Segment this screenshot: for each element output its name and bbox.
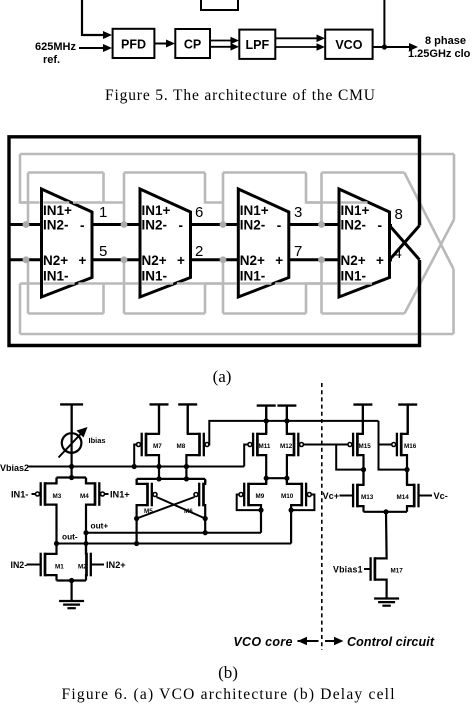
svg-text:Vbias1: Vbias1 <box>333 565 363 575</box>
wire gray vertical stage2 bottom dot <box>123 260 126 314</box>
delay cell U3 <box>238 189 288 297</box>
transistor M13 <box>356 484 359 508</box>
wire gray vertical stage2 right <box>204 173 207 204</box>
svg-text:1.25GHz clo: 1.25GHz clo <box>408 48 471 60</box>
power VDD rail over M16 <box>398 403 417 405</box>
wire M3 M4 common source bar <box>57 476 87 478</box>
transistor M1 <box>44 553 47 577</box>
svg-text:625MHz: 625MHz <box>35 41 76 53</box>
wire gray vertical stage3 bottom dot <box>222 260 225 314</box>
node cross couple top left junction <box>156 476 161 481</box>
wire crossover out4 to top feedback <box>390 226 420 260</box>
svg-text:IN1+: IN1+ <box>110 490 130 500</box>
wire node 8 cell4 output top stub <box>390 224 393 227</box>
svg-text:6: 6 <box>195 204 203 221</box>
svg-text:IN1+: IN1+ <box>142 203 171 218</box>
wire gray level B' stage2 bottom <box>124 312 205 315</box>
svg-text:IN1-: IN1- <box>341 269 367 284</box>
svg-text:N2+: N2+ <box>43 253 68 268</box>
svg-text:PFD: PFD <box>121 38 146 52</box>
power VDD rail over Ibias <box>60 403 83 405</box>
node gray junction dots on row wires <box>23 221 30 228</box>
wire M7 gate to Vbias2 rail <box>134 445 137 467</box>
arrow into LPF lower <box>231 43 240 51</box>
transistor M17 <box>374 557 377 581</box>
wire crossover out8 to bottom feedback <box>390 226 420 260</box>
svg-text:M17: M17 <box>391 568 404 575</box>
svg-text:N2+: N2+ <box>341 253 366 268</box>
svg-text:IN2-: IN2- <box>341 218 367 233</box>
wire cross couple gate M5 to M6 drain <box>157 497 206 519</box>
svg-text:-: - <box>277 218 282 233</box>
node out+ junction <box>83 530 88 535</box>
wire M5 drain down to out- <box>136 519 138 544</box>
wire CP to LPF upper <box>210 40 233 42</box>
wire control tail down to M17 <box>385 512 388 557</box>
svg-text:IN2-: IN2- <box>43 218 69 233</box>
svg-text:M1: M1 <box>55 564 64 571</box>
node M15 source junction <box>361 467 366 472</box>
wire VCO output <box>373 46 412 48</box>
power VDD rail over M7 <box>150 403 169 405</box>
wire dashed divider VCO core / control <box>321 383 323 650</box>
wire gray vertical stage1 right <box>102 173 105 204</box>
svg-text:2: 2 <box>195 243 203 260</box>
wire node 1 cell1 to cell2 top <box>92 223 140 226</box>
svg-text:IN1+: IN1+ <box>43 203 72 218</box>
wire gray level B stage4 <box>322 171 405 174</box>
wire gray vertical stage3 right <box>305 173 308 204</box>
wire M10 source down to out- <box>290 510 292 543</box>
wire gray vertical stage1 to input dot <box>27 173 30 225</box>
wire M8 gate riser to mirror line <box>208 421 379 445</box>
block LPF <box>239 30 275 59</box>
svg-text:(a): (a) <box>213 367 232 386</box>
svg-text:M15: M15 <box>359 443 372 450</box>
svg-text:Vc+: Vc+ <box>323 491 340 501</box>
node M5 drain junction <box>134 516 139 521</box>
transistor M7 <box>145 433 148 457</box>
power VDD rail over M12 <box>277 404 296 406</box>
wire gray level B stage2 <box>124 171 205 174</box>
svg-text:+: + <box>376 253 384 268</box>
node M7 drain junction <box>156 464 161 469</box>
svg-text:-: - <box>378 218 383 233</box>
block PFD <box>113 29 155 58</box>
svg-text:VCO: VCO <box>335 38 362 52</box>
wire M11 M12 source bar <box>266 477 287 479</box>
svg-text:Vbias2: Vbias2 <box>0 463 29 473</box>
svg-text:M3: M3 <box>53 493 62 500</box>
svg-text:IN1-: IN1- <box>142 269 168 284</box>
node control tail junction <box>383 509 388 514</box>
node Control circuit label with arrow <box>325 640 334 642</box>
svg-text:5: 5 <box>99 243 107 260</box>
svg-text:out-: out- <box>62 532 78 542</box>
svg-text:IN2-: IN2- <box>240 218 266 233</box>
wire M6 drain down to out+ <box>204 519 206 533</box>
arrow into PFD pin 1 <box>103 31 112 39</box>
arrow into LPF upper <box>231 37 240 45</box>
node M1 M2 tail junction <box>69 578 74 583</box>
wire M11 gate to Vbias2 rail <box>244 445 248 467</box>
wire gray level B' stage4 bottom <box>322 312 405 315</box>
wire gray vertical stage2 bottom right <box>204 284 207 314</box>
svg-text:LPF: LPF <box>245 38 269 52</box>
svg-text:(b): (b) <box>218 663 238 682</box>
svg-text:Vc-: Vc- <box>434 491 448 501</box>
transistor M11 <box>256 433 259 457</box>
arrow into CP <box>166 40 175 48</box>
wire LPF to VCO upper <box>275 37 319 39</box>
svg-text:VCO core: VCO core <box>233 635 292 649</box>
transistor M5 <box>146 483 149 507</box>
wire gray vertical into stage3 input dot <box>222 173 225 225</box>
wire gray feedback outer top level A <box>20 153 454 156</box>
wire M16 gate loop from mirror line <box>379 444 392 446</box>
wire gray vertical right inner down <box>452 269 455 334</box>
node M8 drain junction <box>184 464 189 469</box>
svg-text:IN1-: IN1- <box>240 269 266 284</box>
wire top row into cell1 <box>9 223 42 226</box>
svg-text:8 phase: 8 phase <box>425 35 466 47</box>
arrow into VCO upper <box>317 35 326 43</box>
wire M1 M2 common source bar <box>57 579 87 581</box>
block divider partial at top <box>201 0 238 10</box>
wire gray vertical stage3 bottom right <box>305 284 308 314</box>
wire M15 gate loop <box>336 445 363 470</box>
wire gray level B' stage3 bottom <box>223 312 306 315</box>
wire node 6 cell2 to cell3 top <box>191 223 239 226</box>
svg-text:7: 7 <box>294 243 302 260</box>
wire gray level B stage1 <box>28 171 104 174</box>
node M10 source junction <box>289 508 294 513</box>
wire M8 drain to cross couple top <box>185 467 187 479</box>
wire gray level C stage3-4 <box>306 201 322 204</box>
wire gray level C crossing cell4 <box>306 201 337 204</box>
node M12 drain mirror junction <box>284 418 289 423</box>
ground under M1 M2 <box>59 600 84 602</box>
wire top bar right down to M6 <box>204 479 206 484</box>
wire node 4 cell4 output bottom stub <box>390 258 393 261</box>
delay cell U1 <box>42 189 93 297</box>
ground under M17 <box>374 597 399 599</box>
svg-text:N2+: N2+ <box>240 253 265 268</box>
svg-text:Control circuit: Control circuit <box>347 635 435 649</box>
svg-text:M11: M11 <box>259 443 271 450</box>
node M16 source junction <box>404 467 409 472</box>
node M6 to out+ junction <box>203 530 208 535</box>
svg-text:8: 8 <box>395 206 403 223</box>
wire out+ line <box>86 532 261 534</box>
wire M12 gate to M15 gate <box>304 444 337 446</box>
transistor M14 <box>413 484 416 508</box>
block VCO <box>325 30 372 59</box>
arrow into VCO lower <box>317 43 326 51</box>
svg-text:Figure 5. The architecture of: Figure 5. The architecture of the CMU <box>105 87 375 104</box>
svg-text:Figure 6. (a) VCO architecture: Figure 6. (a) VCO architecture (b) Delay… <box>62 686 395 703</box>
wire PFD to CP <box>154 43 169 45</box>
svg-text:IN1+: IN1+ <box>240 203 269 218</box>
wire M4 drain down to M2 crossing out- <box>85 533 87 554</box>
node crossing blob M2 drain <box>84 541 89 546</box>
transistor M8 <box>198 433 201 457</box>
wire gray diagonal right crossover path A <box>405 220 455 314</box>
transistor M16 <box>400 433 403 457</box>
transistor M6 <box>202 483 205 507</box>
wire cross couple top bar <box>137 478 206 480</box>
wire node 5 cell1 to cell2 bottom <box>92 258 140 261</box>
svg-text:CP: CP <box>184 38 201 52</box>
svg-text:+: + <box>275 253 283 268</box>
wire cross couple gate M6 to M5 drain <box>137 497 195 519</box>
wire gray level C left vertical corner stub <box>20 201 28 204</box>
transistor M9 <box>247 483 250 507</box>
wire gray vertical into stage4 input dot <box>320 173 323 225</box>
wire gray vertical stage4 bottom dot <box>320 260 323 314</box>
delay cell U2 <box>140 189 191 297</box>
wire M9 source down to out+ <box>260 510 262 533</box>
svg-text:M7: M7 <box>153 443 162 450</box>
wire gray outer bottom level A' <box>20 333 454 336</box>
svg-text:M12: M12 <box>280 443 293 450</box>
wire top bar left down to M5 <box>136 479 138 484</box>
wire M15 node down to M13 <box>362 470 364 485</box>
svg-text:M2: M2 <box>78 564 87 571</box>
node M6 drain junction <box>203 516 208 521</box>
node VCO output junction <box>382 44 387 49</box>
wire gray vertical right outer down <box>453 154 456 220</box>
svg-text:M16: M16 <box>404 443 417 450</box>
svg-text:M8: M8 <box>177 443 186 450</box>
wire gray vertical into stage2 input dot <box>123 173 126 225</box>
wire feedback up to divider <box>383 0 385 47</box>
wire tail to ground <box>70 581 72 602</box>
node Vbias2 junction at tail <box>69 464 74 469</box>
wire 625MHz ref into PFD <box>79 47 107 49</box>
arrow output clock <box>409 43 418 51</box>
wire gray vertical left outer <box>19 154 22 204</box>
wire gray level C' crossing all cells <box>38 282 41 285</box>
svg-text:N2+: N2+ <box>142 253 167 268</box>
svg-text:+: + <box>79 253 87 268</box>
wire gray vertical stage1 bottom right <box>102 284 105 314</box>
node M7 gate tap <box>132 464 137 469</box>
wire black feedback loop border <box>9 137 420 346</box>
svg-text:M14: M14 <box>397 494 410 501</box>
wire bottom row into cell1 <box>9 258 42 261</box>
node M11 drain mirror junction <box>264 418 269 423</box>
transistor M2 <box>85 553 88 577</box>
wire node 3 cell3 to cell4 top <box>289 223 339 226</box>
node M5 to out- junction <box>134 541 139 546</box>
transistor M10 <box>300 483 303 507</box>
wire M4 source up <box>85 478 87 484</box>
wire gray level B stage3 <box>223 171 306 174</box>
transistor M15 <box>356 433 359 457</box>
wire M10 gate loop to source <box>291 495 314 511</box>
svg-text:Ibias: Ibias <box>89 436 106 445</box>
svg-text:M9: M9 <box>256 493 265 500</box>
wire gray vertical stage1 bottom to dot <box>27 260 30 314</box>
power VDD rail over M11 <box>257 404 276 406</box>
node M12 source junction <box>284 476 289 481</box>
wire feedback from divider into PFD <box>82 0 107 35</box>
wire gray level C crossing cell1 <box>20 201 40 204</box>
svg-text:+: + <box>177 253 185 268</box>
wire Vbias2 rail <box>29 466 245 468</box>
wire node 7 cell3 to cell4 bottom <box>289 258 339 261</box>
wire node 2 cell2 to cell3 bottom <box>191 258 239 261</box>
wire M7 drain to cross couple top <box>158 467 160 479</box>
svg-text:M10: M10 <box>281 493 294 500</box>
svg-text:out+: out+ <box>91 521 109 531</box>
svg-text:IN1+: IN1+ <box>341 203 370 218</box>
svg-text:M4: M4 <box>80 493 89 500</box>
svg-text:IN2+: IN2+ <box>106 560 126 570</box>
wire M9 gate loop to source <box>237 495 261 511</box>
wire gray level C' stage3-4 bottom <box>306 282 322 285</box>
svg-text:3: 3 <box>294 204 302 221</box>
power VDD rail over M15 <box>353 403 372 405</box>
wire M3 source up <box>55 478 57 484</box>
wire gray level C' stage2-3 bottom <box>205 282 223 285</box>
svg-text:ref.: ref. <box>43 54 60 66</box>
node M9 source junction <box>258 508 263 513</box>
wire out- line <box>57 543 292 545</box>
svg-text:IN1-: IN1- <box>11 490 28 500</box>
wire gray diagonal top-right crossover path B <box>404 173 453 270</box>
wire CP to LPF lower <box>210 46 233 48</box>
svg-text:-: - <box>80 218 85 233</box>
delay cell U4 <box>339 189 390 297</box>
wire gray level C stage2-3 <box>205 201 223 204</box>
wire tail down to M3 M4 sources <box>70 467 72 478</box>
wire gray level C' left corner stub <box>20 282 40 285</box>
wire M13 M14 source bar <box>364 511 408 513</box>
svg-text:4: 4 <box>394 245 402 262</box>
node out- junction <box>54 541 59 546</box>
power VDD rail over M8 <box>178 403 197 405</box>
transistor M12 <box>293 433 296 457</box>
wire gray level B' stage1 bottom <box>28 312 104 315</box>
block CP <box>175 29 210 58</box>
wire M16 node down to M14 <box>406 470 408 485</box>
wire M11 source down to M9 <box>265 478 267 484</box>
svg-text:-: - <box>179 218 184 233</box>
wire LPF to VCO lower <box>275 46 319 48</box>
node M11 source junction <box>264 476 269 481</box>
wire M12 source down to M10 <box>286 478 288 484</box>
svg-text:IN2-: IN2- <box>11 560 28 570</box>
wire gray vertical left bottom outer <box>19 284 22 335</box>
transistor M3 <box>44 482 47 506</box>
wire VDD to current source <box>70 404 72 466</box>
svg-text:IN2-: IN2- <box>142 218 168 233</box>
wire mirror line down to M16 node <box>379 421 408 470</box>
node cross couple top right junction <box>184 476 189 481</box>
svg-text:M13: M13 <box>361 494 374 501</box>
transistor M4 <box>94 482 97 506</box>
node M3 M4 tail junction <box>69 475 74 480</box>
svg-text:1: 1 <box>99 204 107 221</box>
arrow ref into PFD pin 2 <box>103 44 112 52</box>
current source Ibias <box>62 433 82 453</box>
svg-text:IN1-: IN1- <box>43 269 69 284</box>
